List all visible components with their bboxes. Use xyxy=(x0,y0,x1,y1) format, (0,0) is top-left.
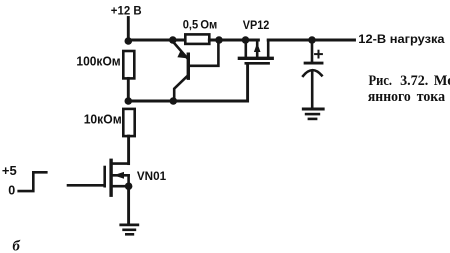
junction node E (divider tap) xyxy=(125,97,133,105)
svg-text:3.72.: 3.72. xyxy=(400,73,428,89)
figure caption line 2 xyxy=(368,89,446,105)
transistor Q2 VN01 NMOS xyxy=(105,160,133,195)
svg-text:Рис.: Рис. xyxy=(369,73,393,89)
svg-text:0: 0 xyxy=(8,184,15,198)
wire 10k to VN01 drain xyxy=(127,136,130,164)
wire gate drive rail xyxy=(128,64,247,101)
junction node A (top of 100k) xyxy=(125,37,133,45)
svg-text:VP12: VP12 xyxy=(243,20,270,32)
transistor Q3 VP12 PMOS xyxy=(239,40,272,63)
figure caption line 1 xyxy=(369,73,450,89)
junction node F (collector tap) xyxy=(170,97,178,105)
svg-text:10кОм: 10кОм xyxy=(84,113,122,127)
wire 100k to gate-drive rail xyxy=(127,78,130,101)
input step waveform symbol xyxy=(19,172,47,191)
resistor R1 0,5 Ом xyxy=(185,34,209,44)
svg-text:VN01: VN01 xyxy=(137,169,167,183)
svg-text:янного: янного xyxy=(368,89,411,105)
junction node G (cap tap) xyxy=(308,36,316,44)
ground GND1 xyxy=(121,225,138,234)
svg-text:тока: тока xyxy=(417,89,446,105)
junction node C (base tap) xyxy=(215,36,223,44)
wire +12V feed xyxy=(127,18,130,42)
wire top rail left xyxy=(128,39,185,42)
junction node D (VP12 source tap) xyxy=(242,36,250,44)
svg-text:+5: +5 xyxy=(2,163,17,178)
junction node B (emitter tap) xyxy=(169,36,177,44)
wire gate input xyxy=(68,184,105,187)
transistor Q1 PNP current-limit xyxy=(173,42,219,101)
svg-text:+12 В: +12 В xyxy=(111,5,142,17)
svg-text:100кОм: 100кОм xyxy=(76,55,120,69)
wire top rail right xyxy=(268,39,354,42)
svg-text:0,5 Ом: 0,5 Ом xyxy=(183,20,218,32)
resistor R3 10 кОм xyxy=(123,109,134,136)
wire VN01 source to ground xyxy=(127,186,130,224)
wire top rail middle xyxy=(209,39,258,42)
svg-text:12-В нагрузка: 12-В нагрузка xyxy=(358,32,445,46)
ground GND2 xyxy=(303,109,323,119)
resistor R2 100 кОм xyxy=(123,51,134,78)
capacitor C1 polarized xyxy=(303,40,322,108)
svg-text:б: б xyxy=(12,239,20,253)
svg-text:Мо: Мо xyxy=(434,73,450,89)
